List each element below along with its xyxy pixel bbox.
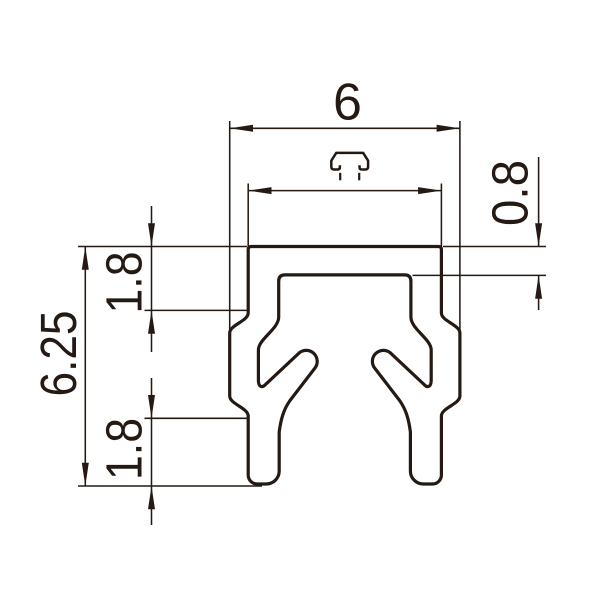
arrow down at 6.25 bottom [82, 463, 89, 486]
arrow up at 1.8 lower bottom [148, 486, 155, 509]
extension line top for 0.8 [443, 246, 546, 248]
svg-text:6.25: 6.25 [30, 311, 87, 397]
arrow left of dim 6 [230, 125, 253, 132]
arrow down at 0.8 top [535, 223, 542, 246]
extension line right for cap width [440, 184, 442, 247]
svg-text:6: 6 [333, 74, 362, 132]
arrow up at 0.8 bottom [535, 275, 542, 298]
slot icon right tick [358, 173, 360, 181]
dimension line width 6 [230, 127, 460, 129]
svg-text:1.8: 1.8 [95, 252, 152, 314]
extension line left for width 6 [229, 121, 231, 333]
dimension line 0.8 upper tail [538, 157, 540, 247]
dimension line 0.8 lower tail [538, 275, 540, 310]
slot icon above cap width dim [331, 153, 368, 170]
extension line for 1.8 lower top [145, 417, 248, 419]
dimension line 1.8 chain lower segment [151, 378, 153, 525]
extension line right for width 6 [459, 121, 461, 333]
dimension line 1.8 chain upper segment [151, 206, 153, 352]
extension line for 1.8 upper bottom [145, 309, 248, 311]
extension line top left for 6.25 [78, 246, 247, 248]
slot icon left tick [339, 173, 341, 181]
arrow down at 1.8 upper top [148, 223, 155, 246]
arrow up at 6.25 top [82, 247, 89, 270]
extension line bottom left for 6.25 [78, 485, 262, 487]
extension line bottom for 0.8 [413, 274, 547, 276]
svg-text:1.8: 1.8 [95, 418, 152, 480]
dimension line 6.25 [84, 247, 86, 487]
dimension line cap width [248, 190, 441, 192]
profile outline (extrusion cross-section) [230, 247, 460, 485]
svg-text:0.8: 0.8 [482, 160, 539, 226]
arrow right of dim 6 [437, 125, 460, 132]
arrow right of cap width dim [418, 187, 441, 194]
arrow left of cap width dim [248, 187, 271, 194]
arrow down at 1.8 lower top [148, 395, 155, 418]
arrow up at 1.8 upper bottom [148, 310, 155, 333]
extension line left for cap width [247, 184, 249, 247]
